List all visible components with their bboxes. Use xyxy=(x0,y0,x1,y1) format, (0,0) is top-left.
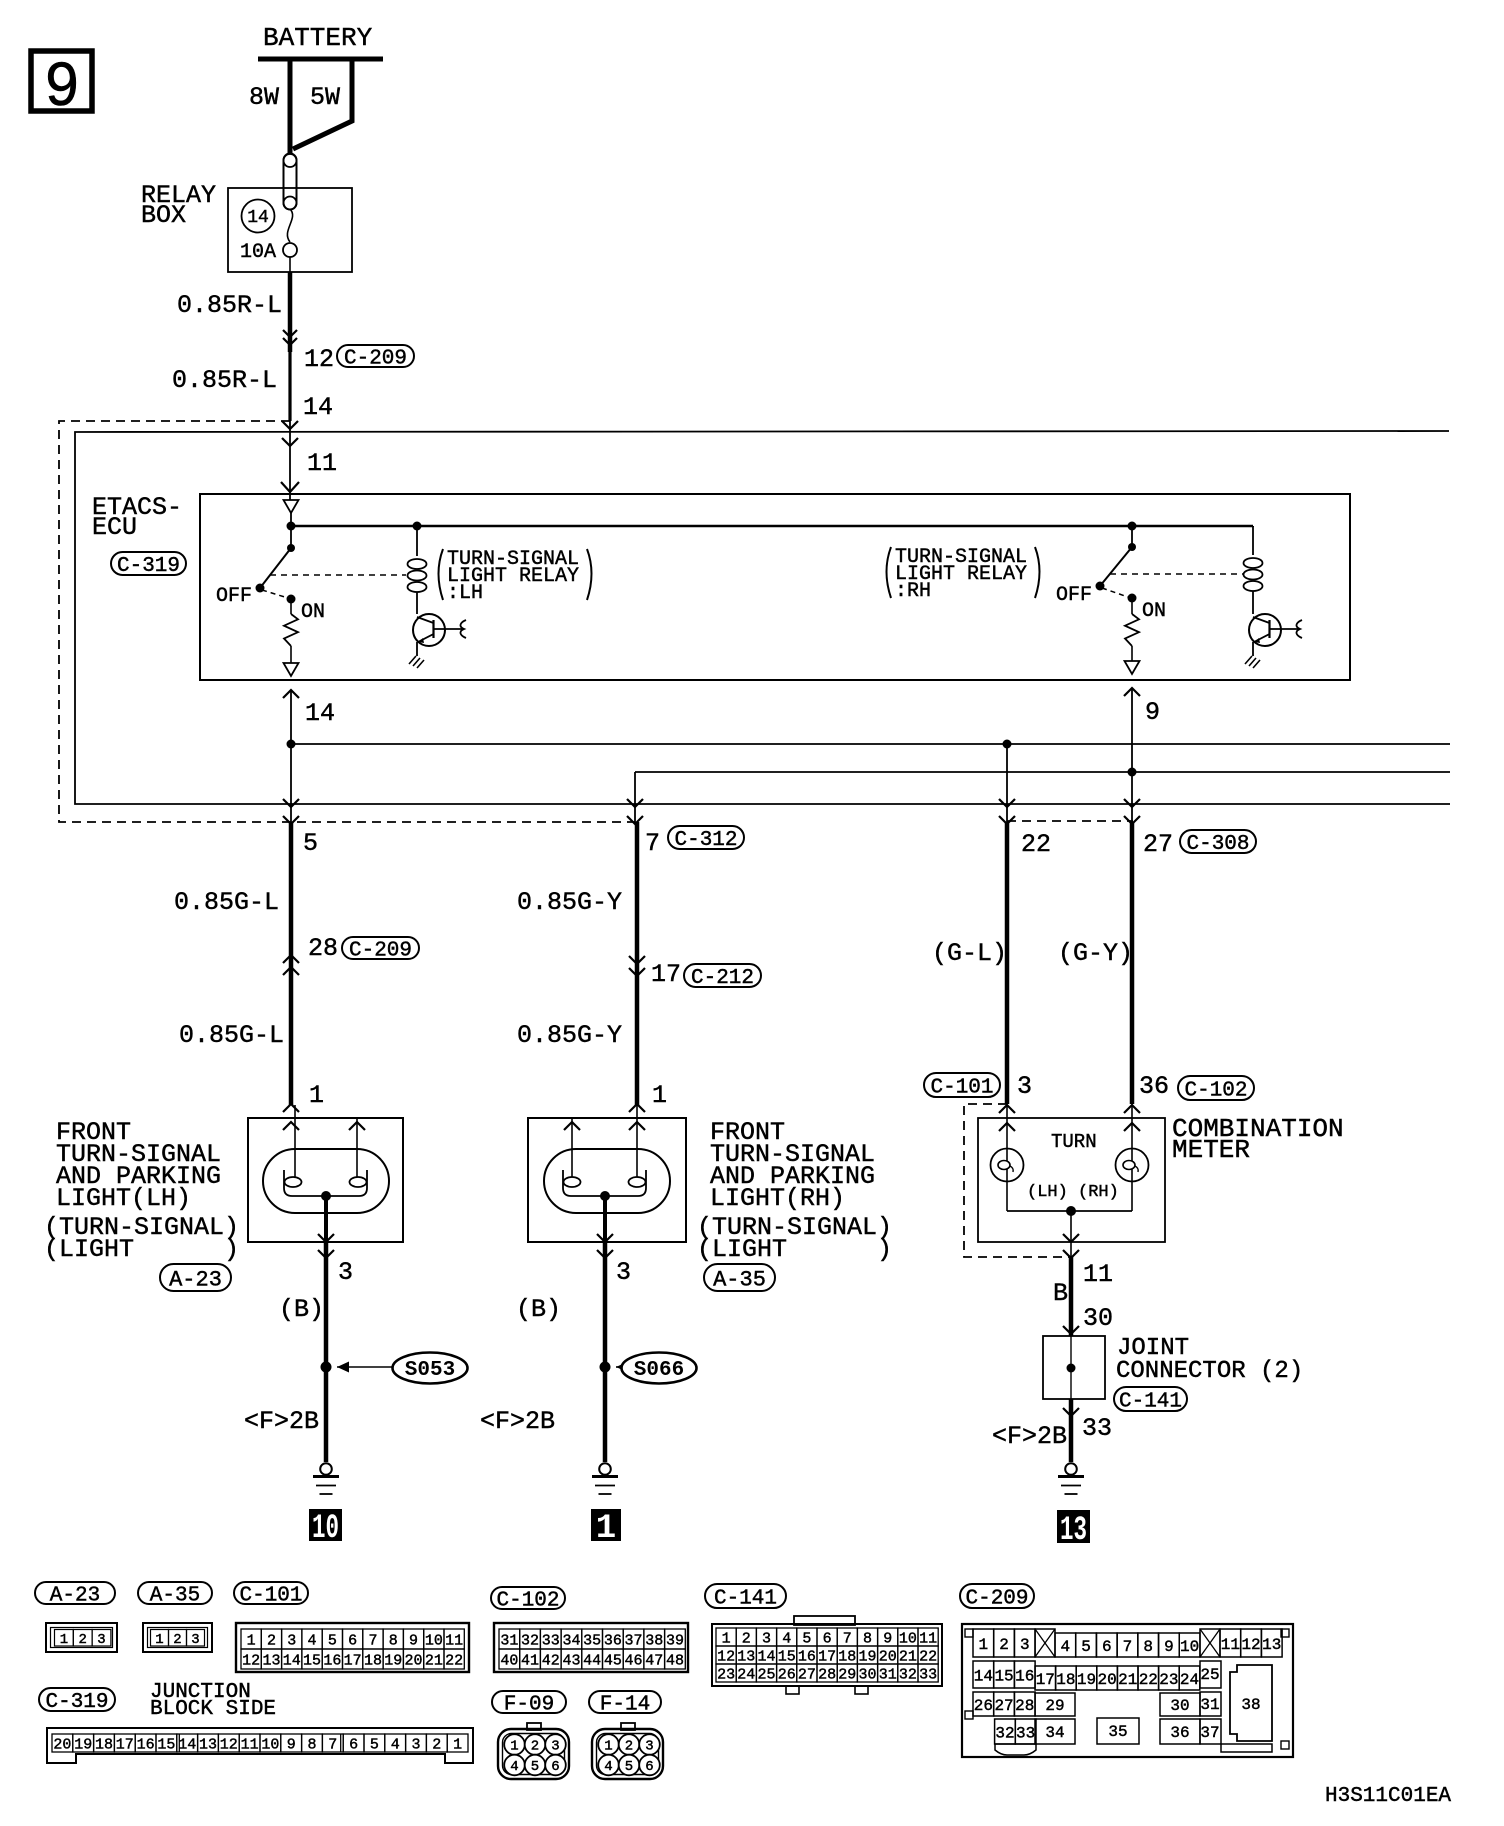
joint connector 2 box xyxy=(1043,1336,1105,1399)
junction block pin 14 crossing xyxy=(282,393,333,429)
svg-text:C-101: C-101 xyxy=(239,1585,302,1608)
svg-text:BOX: BOX xyxy=(141,201,186,230)
svg-text:2: 2 xyxy=(267,1632,276,1649)
svg-text:10: 10 xyxy=(1180,1638,1199,1656)
svg-text:3: 3 xyxy=(287,1632,296,1649)
svg-text:23: 23 xyxy=(717,1666,735,1683)
svg-text:17: 17 xyxy=(344,1652,362,1669)
connector C-141 pinout xyxy=(712,1616,942,1694)
LH relay label xyxy=(439,548,592,605)
connector A-35 pinout xyxy=(143,1623,212,1652)
svg-text:BLOCK SIDE: BLOCK SIDE xyxy=(150,1698,276,1721)
wire 0.85G-Y lower xyxy=(517,976,637,1105)
svg-text:S066: S066 xyxy=(634,1359,684,1382)
svg-text:31: 31 xyxy=(879,1666,897,1683)
connector label C-209 second xyxy=(342,937,419,963)
svg-text:2: 2 xyxy=(625,1739,633,1755)
svg-text:3: 3 xyxy=(1017,1072,1032,1101)
connector A-23 pinout xyxy=(46,1623,117,1652)
svg-text:1: 1 xyxy=(604,1739,612,1755)
svg-text:16: 16 xyxy=(798,1648,816,1665)
svg-text:45: 45 xyxy=(604,1652,622,1669)
svg-text:<F>2B: <F>2B xyxy=(244,1407,319,1436)
svg-text:29: 29 xyxy=(838,1666,856,1683)
svg-text:11: 11 xyxy=(241,1736,259,1753)
svg-text:METER: METER xyxy=(1172,1135,1250,1165)
connector label C-101 bottom xyxy=(234,1582,308,1608)
svg-text:3: 3 xyxy=(616,1258,631,1287)
svg-text:(LIGHT: (LIGHT xyxy=(44,1235,134,1264)
svg-text:(B): (B) xyxy=(516,1295,561,1324)
svg-text:2: 2 xyxy=(173,1632,181,1648)
connector label C-101 xyxy=(924,1073,1000,1100)
svg-text:5: 5 xyxy=(625,1759,633,1775)
svg-text:13: 13 xyxy=(262,1652,280,1669)
svg-text:(B): (B) xyxy=(279,1295,324,1324)
svg-text:ON: ON xyxy=(301,601,325,624)
svg-text:8: 8 xyxy=(1143,1638,1153,1656)
svg-text:34: 34 xyxy=(562,1632,580,1649)
svg-text:5: 5 xyxy=(802,1630,811,1647)
svg-text:11: 11 xyxy=(307,449,337,478)
svg-text:2: 2 xyxy=(999,1636,1009,1654)
svg-text:13: 13 xyxy=(737,1648,755,1665)
RH relay resistor xyxy=(1125,598,1139,661)
meter pin 3 xyxy=(1017,1072,1032,1101)
connector crossing C-212 pin 17 xyxy=(629,956,681,989)
wire B meter to joint connector xyxy=(1053,1257,1071,1336)
svg-text:4: 4 xyxy=(604,1759,612,1775)
svg-text:18: 18 xyxy=(838,1648,856,1665)
wire 0.85G-Y upper xyxy=(517,822,637,976)
connector F-14 pinout xyxy=(592,1723,663,1779)
svg-text:33: 33 xyxy=(1016,1724,1035,1742)
svg-text:6: 6 xyxy=(551,1759,559,1775)
svg-text:F-14: F-14 xyxy=(600,1694,650,1717)
ECU pin 9 terminal xyxy=(1125,661,1140,674)
svg-text:BATTERY: BATTERY xyxy=(263,23,373,53)
connector F-09 pinout xyxy=(498,1723,569,1779)
svg-text:10: 10 xyxy=(261,1736,279,1753)
svg-text:43: 43 xyxy=(562,1652,580,1669)
wire (B) RH xyxy=(516,1242,605,1462)
ECU pin 9 output wire xyxy=(1124,688,1160,772)
svg-text:44: 44 xyxy=(583,1652,601,1669)
svg-text:22: 22 xyxy=(1139,1671,1158,1689)
svg-text:23: 23 xyxy=(1159,1671,1178,1689)
svg-text:22: 22 xyxy=(1021,830,1051,859)
svg-text:40: 40 xyxy=(500,1652,518,1669)
svg-text:0.85G-Y: 0.85G-Y xyxy=(517,888,622,917)
wire (B) LH xyxy=(279,1242,326,1462)
svg-text:1: 1 xyxy=(60,1632,68,1648)
svg-text:15: 15 xyxy=(157,1736,175,1753)
svg-text:12: 12 xyxy=(242,1652,260,1669)
svg-text:15: 15 xyxy=(778,1648,796,1665)
wire 0.85G-L upper xyxy=(174,822,291,958)
meter pin 36 xyxy=(1139,1072,1169,1101)
connector crossing C-209 pin 12 xyxy=(283,330,334,374)
joint connector label xyxy=(1116,1335,1303,1385)
svg-text:27: 27 xyxy=(994,1697,1013,1715)
svg-text:A-35: A-35 xyxy=(713,1267,766,1292)
svg-text:17: 17 xyxy=(1036,1671,1055,1689)
svg-text:17: 17 xyxy=(651,960,681,989)
wire 5W from battery xyxy=(293,59,352,149)
svg-text:9: 9 xyxy=(44,53,80,125)
connector label A-23 bottom xyxy=(35,1582,115,1608)
svg-text:4: 4 xyxy=(1061,1638,1071,1656)
svg-text:31: 31 xyxy=(500,1632,518,1649)
svg-text:6: 6 xyxy=(348,1632,357,1649)
svg-text:7: 7 xyxy=(843,1630,852,1647)
svg-text:32: 32 xyxy=(521,1632,539,1649)
svg-text:16: 16 xyxy=(323,1652,341,1669)
svg-text:9: 9 xyxy=(1145,698,1160,727)
wire 0.85G-L lower xyxy=(179,958,291,1105)
svg-text:35: 35 xyxy=(1108,1723,1127,1741)
svg-text:3: 3 xyxy=(191,1632,199,1648)
connector C-102 pinout xyxy=(494,1623,688,1672)
connector label A-35 bottom xyxy=(138,1582,212,1608)
svg-text:7: 7 xyxy=(368,1632,377,1649)
svg-text:C-312: C-312 xyxy=(674,829,737,852)
ground ref 1 xyxy=(591,1509,621,1548)
svg-text:4: 4 xyxy=(391,1736,400,1753)
svg-text:): ) xyxy=(877,1235,892,1264)
svg-text:33: 33 xyxy=(542,1632,560,1649)
svg-text:A-23: A-23 xyxy=(169,1267,222,1292)
svg-text:33: 33 xyxy=(1082,1414,1112,1443)
svg-text:12: 12 xyxy=(220,1736,238,1753)
svg-text:1: 1 xyxy=(155,1632,163,1648)
LH relay dashed link to coil xyxy=(270,574,406,576)
svg-text:32: 32 xyxy=(995,1724,1014,1742)
svg-text:19: 19 xyxy=(858,1648,876,1665)
svg-text:4: 4 xyxy=(510,1759,518,1775)
splice S066 xyxy=(600,1353,697,1384)
svg-text:(G-Y): (G-Y) xyxy=(1058,939,1133,968)
svg-text:10A: 10A xyxy=(240,241,276,264)
svg-text:33: 33 xyxy=(919,1666,937,1683)
svg-text:1: 1 xyxy=(309,1081,324,1110)
svg-text:C-209: C-209 xyxy=(965,1588,1028,1611)
svg-text:A-23: A-23 xyxy=(50,1585,100,1608)
svg-text:C-308: C-308 xyxy=(1186,833,1249,856)
svg-text:24: 24 xyxy=(737,1666,755,1683)
ECU pin 14 terminal xyxy=(284,663,299,676)
battery xyxy=(258,23,383,59)
junction block dashed outline xyxy=(59,421,1133,822)
svg-text:C-209: C-209 xyxy=(349,940,412,963)
svg-text:10: 10 xyxy=(312,1510,339,1548)
svg-text:28: 28 xyxy=(1015,1697,1034,1715)
svg-text:3: 3 xyxy=(762,1630,771,1647)
RH relay transistor xyxy=(1245,614,1302,668)
front turn-signal and parking light LH box xyxy=(248,1118,403,1242)
svg-text:9: 9 xyxy=(409,1632,418,1649)
svg-text:3: 3 xyxy=(411,1736,420,1753)
svg-text:18: 18 xyxy=(95,1736,113,1753)
svg-text:OFF: OFF xyxy=(1056,584,1092,607)
svg-text:19: 19 xyxy=(74,1736,92,1753)
RH relay dashed link to coil xyxy=(1110,573,1243,575)
connector C-101 pinout xyxy=(236,1623,469,1672)
RH lamp label text xyxy=(697,1118,892,1264)
svg-text:2: 2 xyxy=(432,1736,441,1753)
connector label C-212 xyxy=(684,964,761,990)
combination meter box xyxy=(978,1114,1344,1242)
svg-text:5W: 5W xyxy=(310,83,340,112)
svg-text:S053: S053 xyxy=(405,1359,455,1382)
svg-text:13: 13 xyxy=(1060,1512,1087,1550)
ground RH lamp xyxy=(592,1463,618,1494)
svg-text:<F>2B: <F>2B xyxy=(992,1422,1067,1451)
wire (F)2B meter xyxy=(992,1399,1071,1462)
junction block side label xyxy=(150,1681,276,1721)
svg-text:C-102: C-102 xyxy=(1184,1080,1247,1103)
svg-text:8: 8 xyxy=(863,1630,872,1647)
svg-text:1: 1 xyxy=(722,1630,731,1647)
wire into ECU pin 11 xyxy=(281,421,337,500)
wire (F)2B RH xyxy=(480,1407,555,1436)
svg-text:ON: ON xyxy=(1142,600,1166,623)
svg-text:11: 11 xyxy=(1083,1260,1113,1289)
junction block inner crossing xyxy=(282,438,298,446)
drawing number xyxy=(1325,1785,1451,1808)
svg-text:1: 1 xyxy=(510,1739,518,1755)
RH lamp bulb xyxy=(544,1105,670,1242)
svg-text:2: 2 xyxy=(531,1739,539,1755)
connector C-319 pinout xyxy=(47,1728,473,1763)
svg-text:7: 7 xyxy=(328,1736,337,1753)
fuse 14 circle xyxy=(242,200,275,233)
meter pin 11 exit xyxy=(1063,1211,1113,1289)
svg-text:3: 3 xyxy=(1020,1636,1030,1654)
LH relay transistor xyxy=(409,614,466,668)
svg-text:35: 35 xyxy=(583,1632,601,1649)
svg-text:8: 8 xyxy=(389,1632,398,1649)
turn indicator bulb RH xyxy=(1116,1104,1149,1211)
svg-text:31: 31 xyxy=(1200,1696,1219,1714)
connector C-209 pinout xyxy=(962,1624,1293,1757)
connector label C-102 xyxy=(1178,1076,1254,1103)
LH relay resistor xyxy=(284,599,298,663)
wire (G-L) to meter xyxy=(932,822,1007,1104)
svg-text:27: 27 xyxy=(798,1666,816,1683)
svg-text:(G-L): (G-L) xyxy=(932,939,1007,968)
TURN label xyxy=(1051,1131,1097,1153)
LH relay ON contact xyxy=(262,590,325,624)
connector label F-09 xyxy=(492,1691,566,1717)
svg-text:36: 36 xyxy=(1139,1072,1169,1101)
svg-text:27: 27 xyxy=(1143,830,1173,859)
svg-text:0.85G-L: 0.85G-L xyxy=(179,1021,284,1050)
LH lamp bulb xyxy=(263,1105,389,1242)
wire to pin 5 xyxy=(283,744,318,858)
svg-text:5: 5 xyxy=(1081,1638,1091,1656)
svg-text:14: 14 xyxy=(178,1736,196,1753)
svg-text:20: 20 xyxy=(1097,1671,1116,1689)
svg-text:20: 20 xyxy=(53,1736,71,1753)
svg-text:37: 37 xyxy=(625,1632,643,1649)
svg-text:26: 26 xyxy=(778,1666,796,1683)
svg-text:TURN: TURN xyxy=(1051,1131,1097,1153)
svg-text:22: 22 xyxy=(919,1648,937,1665)
meter entry crossings xyxy=(999,1105,1140,1131)
joint connector pin 30 xyxy=(1063,1304,1113,1334)
svg-text:C-209: C-209 xyxy=(344,348,407,371)
svg-text:13: 13 xyxy=(1262,1636,1281,1654)
output bus RH (G-Y) xyxy=(635,768,1450,777)
svg-text:C-319: C-319 xyxy=(45,1691,108,1714)
svg-text:25: 25 xyxy=(1200,1666,1219,1684)
svg-text:42: 42 xyxy=(542,1652,560,1669)
svg-text:CONNECTOR (2): CONNECTOR (2) xyxy=(1116,1358,1303,1385)
svg-text:8W: 8W xyxy=(249,83,279,112)
connector label C-312 xyxy=(668,826,744,852)
svg-text:18: 18 xyxy=(1056,1671,1075,1689)
svg-text:9: 9 xyxy=(287,1736,296,1753)
splice S053 xyxy=(321,1353,468,1384)
svg-text:OFF: OFF xyxy=(216,585,252,608)
svg-text:17: 17 xyxy=(116,1736,134,1753)
connector label C-319 xyxy=(111,552,186,578)
svg-text::RH: :RH xyxy=(895,580,931,603)
svg-text:F-09: F-09 xyxy=(504,1694,554,1717)
svg-text:29: 29 xyxy=(1045,1697,1064,1715)
svg-text:3: 3 xyxy=(551,1739,559,1755)
svg-text:0.85R-L: 0.85R-L xyxy=(177,291,282,320)
wire to pin 22 xyxy=(999,744,1051,859)
svg-text:3: 3 xyxy=(97,1632,105,1648)
connector label C-319 xyxy=(39,1688,115,1714)
svg-text:3: 3 xyxy=(645,1739,653,1755)
svg-text:8: 8 xyxy=(307,1736,316,1753)
connector label F-14 xyxy=(589,1691,661,1717)
svg-text:32: 32 xyxy=(899,1666,917,1683)
svg-text:36: 36 xyxy=(1170,1724,1189,1742)
LH relay coil xyxy=(408,522,427,615)
wire 0.85R-L upper xyxy=(177,272,290,352)
svg-text:19: 19 xyxy=(384,1652,402,1669)
turn-signal light relay RH switch xyxy=(1056,522,1137,608)
svg-text:16: 16 xyxy=(137,1736,155,1753)
connector label A-35 xyxy=(704,1264,775,1292)
svg-text:2: 2 xyxy=(742,1630,751,1647)
svg-text:5: 5 xyxy=(531,1759,539,1775)
wire to pin 27 xyxy=(1124,772,1173,859)
svg-text:22: 22 xyxy=(445,1652,463,1669)
wire to pin 7 xyxy=(627,772,660,858)
ground ref 10 xyxy=(309,1509,342,1548)
LH lamp pin 3 exit xyxy=(318,1234,353,1287)
svg-text:15: 15 xyxy=(303,1652,321,1669)
svg-text:ECU: ECU xyxy=(92,513,137,542)
svg-text:4: 4 xyxy=(308,1632,317,1649)
svg-text:30: 30 xyxy=(858,1666,876,1683)
svg-text:0.85G-Y: 0.85G-Y xyxy=(517,1021,622,1050)
svg-text:6: 6 xyxy=(349,1736,358,1753)
svg-text:48: 48 xyxy=(666,1652,684,1669)
svg-text::LH: :LH xyxy=(447,582,483,605)
svg-text:19: 19 xyxy=(1077,1671,1096,1689)
svg-text:4: 4 xyxy=(782,1630,791,1647)
svg-text:9: 9 xyxy=(883,1630,892,1647)
svg-text:15: 15 xyxy=(994,1667,1013,1685)
ETACS-ECU box xyxy=(92,493,1350,680)
connector label A-23 xyxy=(160,1264,231,1292)
svg-text:H3S11C01EA: H3S11C01EA xyxy=(1325,1785,1451,1808)
svg-text:11: 11 xyxy=(919,1630,937,1647)
connector label C-141 bottom xyxy=(705,1584,786,1611)
svg-text:10: 10 xyxy=(899,1630,917,1647)
svg-text:37: 37 xyxy=(1200,1724,1219,1742)
svg-text:24: 24 xyxy=(1180,1671,1199,1689)
svg-text:LIGHT(RH): LIGHT(RH) xyxy=(710,1184,845,1213)
turn indicator bulb LH xyxy=(991,1104,1024,1211)
svg-text:20: 20 xyxy=(879,1648,897,1665)
svg-text:C-319: C-319 xyxy=(117,555,180,578)
svg-text:C-102: C-102 xyxy=(496,1590,559,1613)
svg-text:9: 9 xyxy=(1164,1638,1174,1656)
relay box xyxy=(141,181,352,272)
svg-text:11: 11 xyxy=(1221,1636,1240,1654)
svg-text:C-212: C-212 xyxy=(691,967,754,990)
svg-text:6: 6 xyxy=(823,1630,832,1647)
svg-text:12: 12 xyxy=(1241,1636,1260,1654)
junction block solid outline xyxy=(75,431,1450,804)
lamp RH pin 1 entry xyxy=(629,1081,667,1130)
svg-text:14: 14 xyxy=(305,699,335,728)
LH lamp label text xyxy=(44,1118,239,1264)
svg-text:1: 1 xyxy=(247,1632,256,1649)
svg-text:10: 10 xyxy=(425,1632,443,1649)
svg-text:34: 34 xyxy=(1045,1724,1064,1742)
svg-text:21: 21 xyxy=(899,1648,917,1665)
connector label C-209 xyxy=(337,345,414,371)
combination meter dashed outline xyxy=(964,1104,1071,1257)
wire (F)2B LH xyxy=(244,1407,319,1436)
svg-text:0.85R-L: 0.85R-L xyxy=(172,366,277,395)
ground LH lamp xyxy=(313,1463,339,1494)
svg-text:6: 6 xyxy=(1102,1638,1112,1656)
svg-text:28: 28 xyxy=(308,934,338,963)
connector crossing C-209 pin 28 xyxy=(283,934,338,975)
ground ref 13 xyxy=(1057,1510,1090,1550)
turn-signal light relay LH switch xyxy=(216,526,295,608)
svg-text:11: 11 xyxy=(445,1632,463,1649)
svg-text:C-101: C-101 xyxy=(930,1077,993,1100)
svg-text:1: 1 xyxy=(652,1081,667,1110)
svg-text:C-141: C-141 xyxy=(714,1588,777,1611)
front turn-signal and parking light RH box xyxy=(528,1118,686,1242)
ECU pin 14 output wire xyxy=(283,690,335,744)
svg-text:14: 14 xyxy=(303,393,333,422)
svg-text:12: 12 xyxy=(304,345,334,374)
meter internal ground bus xyxy=(1007,1206,1132,1216)
svg-text:36: 36 xyxy=(604,1632,622,1649)
svg-text:1: 1 xyxy=(453,1736,462,1753)
svg-text:14: 14 xyxy=(283,1652,301,1669)
svg-text:41: 41 xyxy=(521,1652,539,1669)
svg-text:30: 30 xyxy=(1170,1697,1189,1715)
svg-text:47: 47 xyxy=(645,1652,663,1669)
svg-text:3: 3 xyxy=(338,1258,353,1287)
svg-text:13: 13 xyxy=(199,1736,217,1753)
svg-text:(LH) (RH): (LH) (RH) xyxy=(1027,1183,1119,1202)
RH relay label xyxy=(887,546,1040,603)
